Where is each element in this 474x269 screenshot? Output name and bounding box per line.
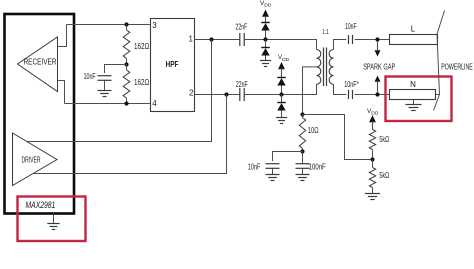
label SPARK GAP	[363, 61, 395, 71]
svg-text:2: 2	[189, 89, 194, 98]
ground clamp2	[276, 118, 287, 124]
wire powerline break bottom	[434, 95, 440, 111]
resistor R3 10ohm	[299, 115, 305, 152]
svg-text:1: 1	[188, 35, 193, 44]
svg-text:N: N	[410, 80, 416, 89]
wire C6 to L box	[355, 39, 390, 41]
node clamp2	[279, 92, 283, 96]
op-amp RECEIVER	[18, 37, 58, 92]
label C5 100nF	[309, 162, 326, 172]
svg-text:3: 3	[152, 21, 157, 30]
ground C4	[266, 175, 280, 181]
wire bias to divider	[303, 115, 373, 160]
label N	[410, 80, 416, 89]
node pin2 column	[224, 92, 228, 96]
node pin1 column	[209, 37, 213, 41]
label MAX2981	[26, 200, 56, 210]
svg-text:POWERLINE: POWERLINE	[441, 61, 473, 71]
transformer T1 core	[324, 48, 327, 87]
wire L to powerline	[437, 39, 440, 41]
resistor R4 5k	[369, 130, 375, 160]
diode D2	[261, 40, 269, 61]
pin 4	[152, 99, 157, 108]
svg-text:162Ω: 162Ω	[134, 41, 149, 51]
svg-text:1:1: 1:1	[322, 27, 329, 36]
label R3 10ohm	[308, 125, 319, 135]
node tap bias	[300, 112, 304, 116]
pin 1	[188, 35, 193, 44]
svg-text:22nF: 22nF	[236, 21, 248, 31]
node row A junction	[124, 22, 128, 26]
node clamp1	[263, 37, 267, 41]
ground divider	[365, 194, 380, 200]
ground C1	[98, 91, 112, 97]
supply VDD clamp2	[278, 54, 290, 77]
svg-text:100nF: 100nF	[309, 162, 326, 172]
supply VDD clamp1	[260, 0, 272, 23]
diode D3	[277, 78, 285, 95]
block HPF U2	[151, 19, 195, 112]
capacitor C2 22nF	[240, 33, 244, 46]
label R5 5k	[379, 170, 389, 180]
resistor R5 5k	[369, 160, 375, 194]
pin 3	[152, 21, 157, 30]
label C3 22nF	[236, 79, 248, 89]
capacitor C7 10nF	[349, 90, 353, 99]
wire powerline vertical	[437, 34, 440, 95]
label C6 10nF	[345, 21, 357, 31]
pin 2	[189, 89, 194, 98]
ground C5	[296, 175, 310, 181]
ground IC	[47, 214, 59, 230]
svg-text:HPF: HPF	[166, 59, 179, 69]
node spark gap bottom	[375, 92, 379, 96]
svg-text:10nF: 10nF	[84, 71, 96, 81]
label 1:1	[322, 27, 329, 36]
svg-text:MAX2981: MAX2981	[26, 200, 56, 210]
svg-text:DRIVER: DRIVER	[22, 156, 41, 165]
svg-text:RECEIVER: RECEIVER	[24, 57, 57, 67]
annotation red box N	[386, 77, 452, 122]
op-amp DRIVER	[13, 133, 58, 186]
svg-text:5kΩ: 5kΩ	[379, 134, 389, 144]
resistor R1 162ohm	[123, 25, 130, 65]
spark gap bottom electrode	[375, 76, 381, 94]
label C1 10nF	[84, 71, 96, 81]
wire row B right	[244, 40, 316, 50]
wire row D pin4	[65, 103, 151, 105]
label C7 10nF	[344, 79, 359, 89]
wire row C right	[244, 84, 316, 94]
label C4 10nF	[248, 162, 261, 172]
wire powerline break top	[437, 11, 445, 35]
label R1 162ohm	[134, 41, 149, 51]
svg-text:SPARK GAP: SPARK GAP	[363, 61, 395, 71]
wire secondary bottom	[334, 84, 347, 94]
capacitor C1 10nF	[98, 76, 112, 91]
transformer T1 primary	[317, 50, 321, 85]
label C2 22nF	[236, 21, 248, 31]
svg-text:22nF: 22nF	[236, 79, 248, 89]
label R4 5k	[379, 134, 389, 144]
spark gap top electrode	[375, 41, 381, 57]
svg-text:10Ω: 10Ω	[308, 125, 319, 135]
wire row A pin3	[67, 24, 151, 26]
transformer T1 secondary	[329, 50, 333, 85]
wire row B left	[195, 39, 240, 41]
node row D junction	[124, 101, 128, 105]
ground clamp1	[260, 61, 271, 67]
wire receiver top jog	[58, 25, 67, 47]
wire row C left	[195, 94, 240, 96]
wire receiver bottom jog	[58, 81, 65, 104]
node resistor midpoint	[124, 62, 128, 66]
label R2 162ohm	[134, 77, 149, 87]
capacitor C5 100nF	[296, 152, 310, 175]
label L	[411, 25, 416, 34]
capacitor C6 10nF	[349, 35, 353, 44]
node spark gap top	[375, 37, 379, 41]
annotation red box MAX2981	[18, 197, 86, 242]
supply VDD divider	[367, 108, 379, 130]
fuse L box	[390, 35, 438, 45]
svg-text:162Ω: 162Ω	[134, 77, 149, 87]
capacitor C4 10nF	[266, 164, 280, 175]
wire secondary top	[334, 40, 347, 50]
ground N	[406, 100, 422, 111]
node divider mid	[370, 157, 374, 161]
svg-text:4: 4	[152, 99, 157, 108]
capacitor C3 22nF	[240, 88, 244, 101]
label POWERLINE	[441, 61, 473, 71]
diode D1	[261, 23, 269, 40]
fuse N box	[390, 90, 436, 100]
diode D4	[277, 95, 285, 118]
resistor R2 162ohm	[123, 65, 130, 104]
wire center tap	[303, 67, 317, 115]
svg-text:10nF: 10nF	[248, 162, 261, 172]
wire driver top to pin1 node	[27, 40, 212, 142]
node bias caps	[300, 149, 304, 153]
svg-text:10nF: 10nF	[345, 21, 357, 31]
wire driver bottom to pin2 node	[33, 95, 227, 174]
wire N to powerline	[436, 94, 440, 96]
svg-text:5kΩ: 5kΩ	[379, 170, 389, 180]
wire C7 to N box	[355, 94, 390, 96]
wire to C4	[273, 152, 303, 162]
svg-text:L: L	[411, 25, 416, 34]
IC outline MAX2981	[5, 14, 75, 214]
svg-text:10nF*: 10nF*	[344, 79, 359, 89]
wire cap to midpoint	[105, 65, 127, 74]
